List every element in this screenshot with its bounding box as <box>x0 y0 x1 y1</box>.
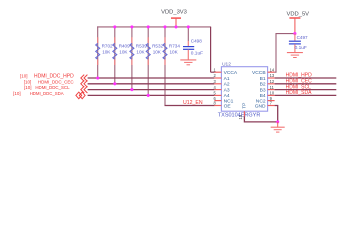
svg-text:HDMI_DDC_SDA: HDMI_DDC_SDA <box>30 91 64 96</box>
svg-text:HDMI_DDC_CEC: HDMI_DDC_CEC <box>38 79 75 84</box>
node dot R539/net <box>130 88 133 91</box>
svg-text:R532: R532 <box>152 44 163 49</box>
svg-text:B2: B2 <box>260 82 266 88</box>
svg-text:OE: OE <box>224 103 232 109</box>
wire VCCB to VDD_5V <box>275 34 295 73</box>
resistor R532 <box>146 37 163 65</box>
svg-text:R702: R702 <box>102 44 113 49</box>
svg-text:10K: 10K <box>119 49 128 54</box>
svg-text:A3: A3 <box>224 87 230 93</box>
resistor R702 <box>96 37 113 65</box>
pin numbers U12 left <box>214 67 217 105</box>
svg-text:C498: C498 <box>191 39 202 44</box>
svg-text:[10]: [10] <box>24 85 32 90</box>
wire column R532 <box>147 27 149 96</box>
node dot R532/net <box>147 94 150 97</box>
svg-text:0.1uF: 0.1uF <box>191 50 203 56</box>
pin stub pad 15 <box>243 111 245 116</box>
svg-text:C497: C497 <box>297 35 308 40</box>
sheet entry [10] HDMI_DDC_CEC <box>24 79 88 87</box>
wire column R409 <box>114 27 116 84</box>
svg-text:R409: R409 <box>119 44 130 49</box>
pin stubs U12 right <box>268 72 275 105</box>
wire B3 HDMI_SCL <box>275 89 337 91</box>
wire column R734 to OE <box>164 27 166 106</box>
node dot R409/net <box>113 82 116 85</box>
node dot VDD_5V <box>293 32 296 35</box>
svg-text:0.1uF: 0.1uF <box>295 45 307 51</box>
op-amp U12 (level shifter IC body) <box>218 61 268 118</box>
node dot R702/net <box>96 76 99 79</box>
svg-text:A1: A1 <box>224 76 230 82</box>
svg-text:R539: R539 <box>136 44 147 49</box>
power VDD_3V3 <box>161 10 187 27</box>
node dot GND junction <box>276 120 279 123</box>
svg-text:A2: A2 <box>224 82 230 88</box>
svg-text:VCCB: VCCB <box>252 70 266 76</box>
ground (C498) <box>180 60 196 65</box>
pin numbers U12 right <box>270 67 275 105</box>
svg-text:GND: GND <box>255 103 266 109</box>
wire HDMI_DDC_SCL to A3 <box>88 89 215 91</box>
svg-text:13: 13 <box>270 73 275 78</box>
sheet entry [10] HDMI_DDC_SCL <box>24 85 87 93</box>
wire B4 HDMI_SDA <box>275 94 337 96</box>
wire B1 HDMI_HPD <box>275 77 337 79</box>
svg-text:B4: B4 <box>260 93 266 99</box>
ground (main) <box>271 122 285 132</box>
pin stubs U12 left <box>214 72 221 105</box>
svg-text:12: 12 <box>270 79 275 84</box>
svg-text:11: 11 <box>270 85 275 90</box>
wire pad to ground <box>244 116 277 122</box>
svg-text:[10]: [10] <box>13 91 21 96</box>
svg-text:VCCA: VCCA <box>224 70 238 76</box>
svg-text:10K: 10K <box>170 49 179 54</box>
wire column R539 <box>131 27 133 90</box>
capacitor C498 <box>183 39 203 60</box>
wire 3V3 bus <box>97 26 99 78</box>
wire HDMI_DDC_HPD to A1 <box>88 77 215 79</box>
svg-text:10K: 10K <box>102 49 111 54</box>
sheet entry [10] HDMI_DDC_HPD <box>20 74 87 82</box>
svg-text:10K: 10K <box>153 49 162 54</box>
pin names U12 left <box>224 70 238 109</box>
svg-text:B3: B3 <box>260 87 266 93</box>
wire GND pin to ground <box>275 106 278 122</box>
ground (C497) <box>287 53 303 58</box>
wire B2 HDMI_CEC <box>275 83 337 85</box>
svg-text:HDMI_DDC_SCL: HDMI_DDC_SCL <box>35 85 70 90</box>
resistor R539 <box>130 37 147 65</box>
svg-text:B1: B1 <box>260 76 266 82</box>
capacitor C497 <box>289 34 308 53</box>
svg-text:R734: R734 <box>169 44 180 49</box>
svg-text:14: 14 <box>270 67 275 72</box>
wire HDMI_DDC_CEC to A2 <box>88 83 215 85</box>
resistor R409 <box>113 37 130 65</box>
pin names U12 right <box>252 70 266 109</box>
wire C498 column <box>187 27 189 41</box>
wire HDMI_DDC_SDA to A4 <box>88 94 215 96</box>
resistor R734 <box>163 37 180 65</box>
svg-text:[10]: [10] <box>20 74 28 79</box>
svg-text:10K: 10K <box>136 49 145 54</box>
power VDD_5V <box>287 12 310 34</box>
svg-text:VDD_3V3: VDD_3V3 <box>161 10 187 16</box>
svg-text:TP: TP <box>241 103 246 109</box>
svg-text:U12: U12 <box>222 61 231 67</box>
svg-text:U12_EN: U12_EN <box>183 100 203 106</box>
svg-text:[10]: [10] <box>24 79 32 84</box>
node bus junction dots <box>113 25 190 28</box>
svg-text:15: 15 <box>238 114 243 119</box>
sheet entry [10] HDMI_DDC_SDA <box>13 91 85 99</box>
svg-text:A4: A4 <box>224 93 230 99</box>
svg-text:HDMI_SDA: HDMI_SDA <box>286 90 313 96</box>
svg-text:VDD_5V: VDD_5V <box>287 12 310 18</box>
